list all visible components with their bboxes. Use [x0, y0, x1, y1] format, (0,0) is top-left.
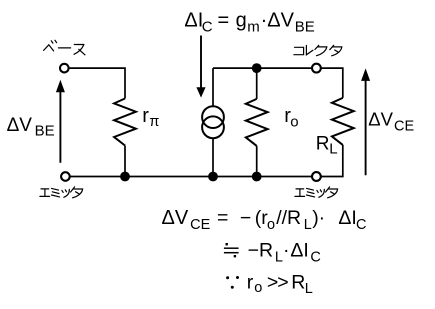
label equation line 1: ΔVCE = −(ro//RL)·ΔIC [162, 207, 367, 233]
svg-text:π: π [149, 114, 159, 130]
wire rπ bottom [124, 146, 126, 177]
svg-text:R: R [316, 134, 330, 155]
svg-text:R: R [291, 272, 305, 294]
svg-text:r: r [247, 272, 254, 294]
svg-text:·ΔV: ·ΔV [261, 10, 295, 32]
terminal base circle [60, 64, 69, 73]
svg-text:L: L [329, 140, 337, 157]
svg-text:o: o [267, 217, 275, 233]
node dot current source bottom [208, 172, 218, 182]
label エミッタ (emitter left) [40, 187, 83, 198]
svg-text:ΔV: ΔV [368, 109, 393, 130]
label equation line 3: ro >> RL [247, 272, 313, 298]
label コレクタ (collector) [294, 45, 342, 56]
wire bottom rail left [70, 176, 311, 178]
wire current source top [212, 68, 214, 106]
node dot ro bottom [252, 172, 262, 182]
svg-text:ΔI: ΔI [184, 10, 203, 32]
svg-text:o: o [290, 114, 298, 131]
label formula ΔIC = gm·ΔVBE [184, 10, 314, 36]
wire current source bottom [212, 138, 214, 176]
svg-text:g: g [236, 10, 247, 32]
svg-text:o: o [254, 280, 262, 296]
svg-text:r: r [142, 105, 149, 127]
label RL [316, 134, 338, 158]
node dot rπ bottom [120, 172, 130, 182]
resistor rπ [114, 99, 136, 146]
svg-text:ΔV: ΔV [7, 115, 33, 136]
arrow ΔIC current arrow [196, 36, 205, 98]
label ベース (base) [44, 40, 85, 55]
wire base to rπ [69, 68, 125, 98]
svg-text:BE: BE [295, 18, 315, 35]
svg-text:C: C [356, 217, 366, 233]
arrow ΔVBE [56, 80, 65, 163]
node dot ro top [252, 63, 262, 73]
label ro [284, 105, 298, 130]
wire ro bottom lead [256, 146, 258, 177]
label ΔVBE [7, 115, 55, 140]
svg-text:=: = [217, 207, 228, 229]
terminal emitter-right circle [312, 172, 321, 181]
wire collector to RL [321, 68, 342, 98]
svg-text:ΔI: ΔI [290, 240, 308, 262]
svg-text:·: · [319, 207, 326, 229]
svg-text:L: L [275, 249, 283, 265]
resistor RL [332, 98, 354, 145]
wire ro top lead [256, 68, 258, 99]
label ΔVCE [368, 109, 414, 135]
resistor ro [246, 99, 268, 146]
svg-text:·: · [283, 240, 290, 262]
svg-text:−R: −R [248, 240, 273, 262]
label equation line 2: −RL·ΔIC [248, 240, 321, 266]
current source gm·ΔVBE [202, 106, 224, 138]
label エミッタ (emitter right) [295, 187, 338, 198]
symbol ≒ (approximately equal) [224, 243, 239, 257]
svg-text:ΔI: ΔI [338, 207, 356, 229]
svg-text:CE: CE [394, 118, 414, 134]
label rπ [142, 105, 159, 130]
terminal emitter-left circle [61, 172, 70, 181]
svg-text:C: C [310, 249, 320, 265]
svg-text://R: //R [276, 207, 301, 229]
svg-text:L: L [304, 217, 312, 233]
svg-text:−: − [240, 207, 251, 229]
svg-text:ΔV: ΔV [162, 207, 189, 229]
svg-text:BE: BE [35, 123, 55, 140]
svg-text:=: = [218, 10, 230, 32]
arrow ΔVCE [361, 68, 370, 175]
svg-text:C: C [202, 18, 213, 35]
terminal collector circle [312, 64, 321, 73]
wire RL bottom lead [321, 145, 342, 177]
svg-text:>: > [277, 272, 288, 294]
svg-text:CE: CE [190, 217, 210, 233]
svg-text:L: L [305, 281, 313, 297]
symbol ∵ (because) [226, 276, 239, 289]
wire top rail right [213, 67, 312, 69]
svg-text:m: m [247, 18, 260, 35]
